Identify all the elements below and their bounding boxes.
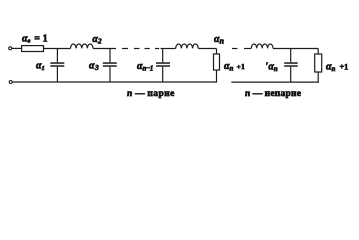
svg-text:α3: α3 bbox=[89, 60, 99, 72]
capacitor Cn-1 bbox=[156, 49, 170, 83]
resistor Rn+1 even bbox=[214, 49, 220, 83]
wire bottom odd bbox=[231, 81, 318, 83]
inductor L2 bbox=[71, 44, 94, 48]
wire bbox=[273, 48, 318, 50]
wire bbox=[198, 48, 216, 50]
input terminal top bbox=[9, 47, 12, 50]
svg-text:n — парне: n — парне bbox=[127, 89, 175, 99]
capacitor Cn odd bbox=[284, 49, 298, 83]
wire bbox=[244, 48, 251, 50]
capacitor C3 bbox=[103, 49, 117, 83]
inductor Ln odd bbox=[251, 44, 273, 48]
wire bbox=[161, 48, 176, 50]
wire bbox=[44, 48, 71, 50]
inductor Ln bbox=[176, 44, 199, 48]
dashed wire bbox=[122, 48, 159, 50]
svg-text:αв= 1: αв= 1 bbox=[22, 34, 48, 45]
dashed wire odd bbox=[232, 48, 238, 50]
wire bbox=[93, 48, 116, 50]
resistor Rn+1 odd bbox=[315, 49, 322, 83]
capacitor C1 bbox=[50, 49, 64, 83]
svg-text:n — непарне: n — непарне bbox=[245, 89, 301, 99]
resistor Rin bbox=[22, 46, 44, 52]
wire bottom even bbox=[12, 81, 217, 83]
bottom terminal bbox=[9, 81, 12, 84]
wire bbox=[12, 47, 22, 49]
svg-text:αn: αn bbox=[214, 34, 225, 46]
